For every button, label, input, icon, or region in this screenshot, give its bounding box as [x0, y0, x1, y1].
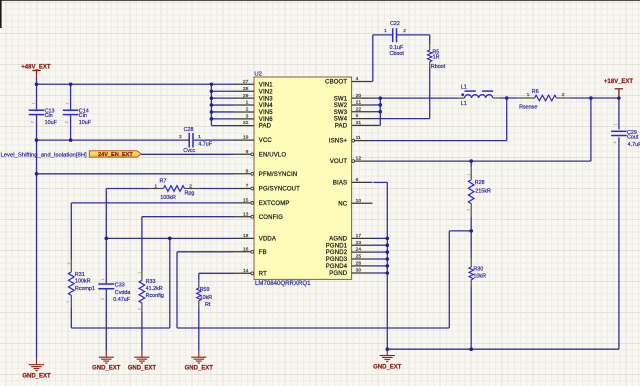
ground GND_EXT (R59): [191, 351, 206, 363]
svg-text:30: 30: [356, 268, 362, 274]
wire C14 bottom: [70, 115, 72, 140]
svg-text:PAD: PAD: [335, 124, 348, 130]
svg-text:+18V_EXT: +18V_EXT: [604, 79, 634, 85]
pin 27 VIN1 (left): [234, 83, 255, 85]
wire PGND4 stub: [373, 265, 388, 267]
wire R59 bottom to GND: [198, 308, 200, 351]
svg-text:215kR: 215kR: [475, 188, 491, 194]
svg-text:Cvdda: Cvdda: [115, 290, 131, 296]
svg-text:C28: C28: [184, 127, 194, 133]
pin 24 PGND2 (right): [352, 251, 373, 253]
resistor R28: [468, 180, 474, 204]
pin 13 CONFIG (left): [234, 216, 251, 218]
junction VIN bus top: [210, 82, 214, 86]
pin 12 VOUT (right): [355, 160, 373, 162]
pin 5 SW4 (right): [352, 118, 373, 120]
wire RT row: [199, 272, 234, 274]
lead L1 left: [458, 97, 465, 99]
pin 10 NC (right): [352, 202, 373, 204]
svg-text:FB: FB: [259, 250, 267, 256]
svg-text:1: 1: [155, 184, 158, 190]
wire +48V top rail: [37, 83, 234, 85]
wire ISNS+ riser: [506, 98, 508, 141]
svg-text:SW2: SW2: [334, 103, 348, 109]
junction SW3 bus: [379, 110, 383, 114]
svg-text:6: 6: [356, 177, 359, 183]
svg-text:23: 23: [356, 240, 362, 246]
junction bus VIN5: [210, 110, 214, 114]
svg-text:2: 2: [246, 107, 249, 113]
svg-text:10kR: 10kR: [473, 273, 486, 279]
svg-text:2: 2: [31, 121, 35, 123]
wire R33 bottom to GND: [141, 312, 143, 351]
svg-text:R30: R30: [473, 267, 483, 273]
wire R28 bottom to tap: [470, 216, 472, 231]
svg-text:Rpg: Rpg: [185, 190, 195, 196]
wire CBOOT riser: [372, 35, 374, 82]
svg-text:CBOOT: CBOOT: [325, 80, 347, 86]
wire GND rail bottom right: [387, 348, 619, 350]
svg-text:LM70840QRRXRQ1: LM70840QRRXRQ1: [255, 280, 311, 287]
wire EXTCOMP down to R31: [70, 203, 72, 260]
pin 8 PFM/SYNCIN (left): [234, 173, 251, 175]
junction C14 top: [69, 82, 73, 86]
ground GND_EXT (left rail): [29, 358, 44, 370]
junction bus VIN4: [210, 103, 214, 107]
junction +48V/rail: [35, 82, 39, 86]
wire R30 top: [470, 231, 472, 259]
lead R31 bottom: [70, 295, 72, 307]
junction AGND bus: [386, 237, 390, 241]
pin 25 PGND3 (right): [352, 258, 373, 260]
wire 24V_EN_EXT to EN/UVLO: [141, 153, 233, 155]
resistor R6: [535, 95, 557, 101]
svg-text:CONFIG: CONFIG: [259, 215, 283, 221]
wire VOUT row: [373, 160, 591, 162]
wire SW bus vertical: [379, 98, 381, 125]
svg-text:2: 2: [466, 209, 470, 211]
capacitor C14: [63, 109, 79, 111]
lead R5 bottom: [429, 62, 431, 68]
wire C33 top: [105, 238, 107, 283]
svg-text:4.7uF: 4.7uF: [198, 142, 212, 148]
svg-text:10uF: 10uF: [45, 120, 58, 126]
junction SW1 bus: [379, 96, 383, 100]
junction R30 bottom: [469, 347, 473, 351]
svg-text:EN/UVLO: EN/UVLO: [259, 152, 287, 158]
wire FB riser: [448, 231, 450, 328]
svg-text:GND_EXT: GND_EXT: [373, 364, 402, 370]
svg-text:R59: R59: [200, 287, 210, 293]
wire BIAS stub: [373, 181, 387, 183]
svg-text:GND_EXT: GND_EXT: [185, 365, 214, 371]
svg-text:Cboot: Cboot: [390, 51, 405, 57]
resistor R31: [69, 272, 75, 295]
svg-text:PGND3: PGND3: [326, 257, 348, 263]
junction bus VIN2: [210, 89, 214, 93]
svg-text:Cin: Cin: [45, 113, 53, 119]
wire C14 top: [70, 84, 72, 109]
svg-text:VIN2: VIN2: [259, 89, 273, 95]
junction VOUT riser: [589, 96, 593, 100]
junction +18V/C29: [617, 96, 621, 100]
svg-text:Rcomp1: Rcomp1: [75, 286, 95, 292]
wire VIN3 stub: [211, 97, 233, 99]
wire R6 to +18V node: [571, 97, 619, 99]
svg-text:PGND2: PGND2: [326, 250, 348, 256]
junction ISNS riser: [505, 96, 509, 100]
svg-text:PGND1: PGND1: [326, 243, 348, 249]
svg-text:1: 1: [138, 272, 142, 274]
pin 26 PGND4 (right): [352, 265, 373, 267]
svg-text:2: 2: [189, 183, 192, 189]
svg-text:Rt: Rt: [205, 302, 211, 308]
junction PGND1 bus: [386, 243, 390, 247]
svg-text:VIN3: VIN3: [259, 96, 273, 102]
wire VIN6 stub: [211, 118, 233, 120]
capacitor C28: [188, 133, 190, 148]
pin 29 VIN3 (left): [234, 97, 255, 99]
svg-text:R6: R6: [532, 89, 539, 95]
svg-text:0.47uF: 0.47uF: [113, 297, 130, 303]
wire R5 top drop: [429, 35, 431, 44]
svg-text:Rsense: Rsense: [519, 105, 537, 111]
wire PGND stub: [373, 272, 388, 274]
svg-text:2: 2: [67, 262, 71, 264]
svg-text:1: 1: [614, 123, 618, 125]
svg-text:VCC: VCC: [259, 138, 273, 144]
junction PFM row: [35, 172, 39, 176]
pin 9 EN/UVLO (left): [234, 153, 251, 155]
pin 18 VDDA (left): [234, 237, 255, 239]
svg-text:VIN1: VIN1: [259, 82, 273, 88]
wire EXTCOMP row: [71, 202, 233, 204]
wire PAD stub: [211, 125, 233, 127]
svg-text:Cin: Cin: [79, 113, 87, 119]
wire C29 bottom to GND rail: [618, 137, 620, 349]
junction PGND bus: [386, 271, 390, 275]
junction VDDA/R7/C33: [105, 237, 109, 241]
svg-text:5: 5: [356, 113, 359, 119]
wire VOUT riser: [590, 98, 592, 161]
power +18V_EXT: [615, 89, 623, 98]
svg-text:29: 29: [243, 93, 249, 99]
svg-text:BIAS: BIAS: [333, 181, 347, 187]
svg-text:100kR: 100kR: [75, 279, 91, 285]
svg-text:10: 10: [356, 198, 362, 204]
svg-text:1: 1: [66, 102, 70, 104]
ground GND_EXT (R33): [134, 351, 149, 363]
svg-text:24: 24: [356, 247, 362, 253]
wire SW4 row: [373, 118, 430, 120]
wire SW3 stub: [373, 111, 381, 113]
pin 23 PGND1 (right): [352, 244, 373, 246]
wire VIN4 stub: [211, 104, 233, 106]
lead R31 top: [70, 260, 72, 272]
pin 28 VIN2 (left): [234, 90, 255, 92]
svg-text:17: 17: [356, 233, 362, 239]
pin 14 RT (left): [234, 272, 251, 274]
capacitor C29: [611, 130, 627, 132]
pin 19 VCC (left): [234, 139, 255, 141]
resistor R30: [469, 267, 473, 280]
svg-text:10kR: 10kR: [200, 295, 213, 301]
lead R5 top: [429, 44, 431, 50]
svg-text:1: 1: [101, 278, 105, 280]
svg-text:2: 2: [138, 308, 142, 310]
svg-text:R7: R7: [160, 178, 167, 184]
junction C14 gnd: [69, 138, 73, 142]
svg-text:9: 9: [246, 149, 249, 155]
wire R7 left: [106, 188, 148, 190]
junction GND rail left: [386, 347, 390, 351]
wire R31 bottom drop: [70, 308, 72, 329]
svg-text:1: 1: [467, 173, 471, 175]
wire R28 top: [470, 161, 472, 167]
svg-text:10uF: 10uF: [79, 120, 92, 126]
pin 15 EXTCOMP (left): [234, 202, 251, 204]
capacitor C33: [98, 283, 114, 285]
wire GND row to C28: [37, 139, 189, 141]
lead R30 bottom: [470, 280, 472, 287]
svg-text:100kR: 100kR: [160, 195, 176, 201]
svg-text:13: 13: [243, 211, 249, 217]
svg-text:PFM/SYNCIN: PFM/SYNCIN: [259, 172, 298, 178]
svg-text:2: 2: [613, 141, 617, 143]
svg-text:15: 15: [243, 198, 249, 204]
svg-text:31: 31: [356, 120, 362, 126]
wire C22 to R5 corner: [397, 34, 430, 36]
junction R28 top VOUT: [469, 159, 473, 163]
svg-text:8: 8: [246, 168, 249, 174]
junction PGND2 bus: [386, 250, 390, 254]
wire VIN5 stub: [211, 111, 233, 113]
wire FB row: [177, 251, 234, 253]
pin 22 SW3 (right): [352, 111, 373, 113]
svg-text:SW3: SW3: [334, 110, 348, 116]
resistor R59: [197, 288, 201, 301]
pin 32 PAD (left): [234, 125, 255, 127]
svg-text:VIN6: VIN6: [259, 117, 273, 123]
pin 3 VIN6 (left): [234, 118, 255, 120]
lead R59 bottom: [198, 301, 200, 308]
pin 6 BIAS (right): [352, 181, 373, 183]
wire L1 to R6: [499, 97, 518, 99]
svg-text:GND_EXT: GND_EXT: [128, 365, 157, 371]
wire R30 bottom: [470, 287, 472, 350]
lead R7 left: [149, 188, 164, 190]
lead R7 right: [185, 188, 200, 190]
pin 17 AGND (right): [352, 237, 373, 239]
svg-text:1: 1: [31, 102, 35, 104]
svg-text:RT: RT: [259, 271, 267, 277]
svg-text:SW1: SW1: [334, 96, 348, 102]
svg-text:Level_Shifting_and_Isolation[8: Level_Shifting_and_Isolation[8H]: [1, 153, 87, 159]
ground GND_EXT (C33): [99, 351, 114, 363]
junction PGND4 bus: [386, 264, 390, 268]
wire VIN bus vertical: [210, 84, 212, 125]
pin 16 FB (left): [234, 251, 251, 253]
svg-text:Cvcc: Cvcc: [183, 148, 195, 154]
inductor L1: [464, 95, 492, 98]
svg-text:ISNS+: ISNS+: [329, 139, 348, 145]
svg-text:GND_EXT: GND_EXT: [92, 365, 121, 371]
wire +48V power drop: [36, 77, 38, 110]
svg-text:2: 2: [179, 134, 182, 140]
svg-text:SW4: SW4: [334, 117, 348, 123]
power +48V_EXT: [32, 71, 40, 77]
wire PGND2 stub: [373, 251, 388, 253]
pin 1 VIN4 (left): [234, 104, 255, 106]
svg-text:21: 21: [356, 100, 362, 106]
svg-text:R28: R28: [475, 180, 485, 186]
wire PGND3 stub: [373, 258, 388, 260]
svg-text:19: 19: [243, 135, 249, 141]
svg-text:1: 1: [384, 28, 387, 34]
lead R59 top: [198, 281, 200, 288]
wire PGND1 stub: [373, 244, 388, 246]
junction C13 gnd: [35, 138, 39, 142]
svg-text:NC: NC: [338, 201, 347, 207]
svg-text:26: 26: [356, 261, 362, 267]
svg-text:Rboot: Rboot: [431, 64, 446, 70]
svg-text:4: 4: [356, 76, 359, 82]
wire FB rail: [177, 327, 449, 329]
svg-text:L1: L1: [461, 84, 467, 90]
svg-text:2: 2: [100, 298, 104, 300]
svg-text:27: 27: [243, 79, 249, 85]
wire VDDA riser: [169, 238, 171, 328]
junction bus VIN3: [210, 96, 214, 100]
svg-text:1: 1: [198, 134, 201, 140]
lead R30 top: [470, 259, 472, 268]
junction PGND3 bus: [386, 257, 390, 261]
svg-text:L1: L1: [461, 101, 467, 107]
svg-text:1: 1: [527, 92, 530, 98]
wire C28 to VCC pin: [194, 139, 234, 141]
pin 2 VIN5 (left): [234, 111, 255, 113]
lead L1 right: [493, 97, 499, 99]
resistor R33: [139, 280, 145, 303]
wire CONFIG row: [142, 216, 234, 218]
svg-text:2: 2: [65, 121, 69, 123]
svg-text:U2: U2: [254, 71, 262, 77]
svg-text:C22: C22: [390, 21, 400, 27]
svg-text:16: 16: [243, 246, 249, 252]
svg-text:2: 2: [562, 92, 565, 98]
svg-text:EXTCOMP: EXTCOMP: [259, 201, 290, 207]
pin 7 PG/SYNCOUT (left): [234, 188, 251, 190]
wire rail R31 to VDDA riser: [71, 327, 170, 329]
wire AGND stub: [373, 237, 388, 239]
svg-text:20: 20: [356, 93, 362, 99]
wire C13 bottom to GND rail: [36, 115, 38, 358]
svg-text:41.2kR: 41.2kR: [146, 286, 163, 292]
wire CBOOT top to C22: [373, 34, 393, 36]
lead R33 bottom: [141, 303, 143, 312]
wire PAD31 stub: [373, 124, 381, 126]
wire FB drop: [176, 252, 178, 328]
svg-text:VIN4: VIN4: [259, 103, 273, 109]
wire CONFIG down to R33: [141, 217, 143, 271]
svg-text:1: 1: [65, 301, 69, 303]
svg-text:7: 7: [246, 183, 249, 189]
svg-text:24V_EN_EXT: 24V_EN_EXT: [98, 152, 133, 158]
lead R28 top: [470, 167, 472, 180]
svg-text:VOUT: VOUT: [330, 159, 347, 165]
wire C29 top: [618, 98, 620, 129]
svg-text:2: 2: [403, 28, 406, 34]
svg-text:R31: R31: [75, 272, 85, 278]
svg-text:14: 14: [243, 268, 249, 274]
wire R5 bottom to SW4 row: [429, 68, 431, 119]
svg-text:Cout: Cout: [627, 134, 639, 140]
resistor R7: [163, 186, 184, 192]
wire VDDA row: [106, 237, 233, 239]
capacitor C13: [29, 109, 45, 111]
wire SW2 stub: [373, 104, 381, 106]
lead R33 top: [141, 271, 143, 280]
lead R6 right: [556, 97, 570, 99]
pin 30 PGND (right): [352, 272, 373, 274]
wire RT drop to R59: [198, 273, 200, 281]
svg-text:PGND4: PGND4: [326, 264, 348, 270]
svg-text:32: 32: [243, 120, 249, 126]
wire C33 bottom to GND: [105, 290, 107, 351]
svg-text:25: 25: [356, 254, 362, 260]
svg-text:11: 11: [356, 135, 361, 141]
wire R7 to PG/SYNCOUT: [199, 188, 233, 190]
svg-text:1R: 1R: [433, 55, 440, 61]
svg-text:C33: C33: [115, 282, 125, 288]
pin 11 ISNS+ (right): [355, 140, 373, 142]
capacitor C22: [392, 28, 394, 42]
pin 20 SW1 (right): [352, 97, 373, 99]
pin 21 SW2 (right): [352, 104, 373, 106]
svg-text:1: 1: [246, 100, 249, 106]
svg-text:22: 22: [356, 106, 362, 112]
ground GND_EXT (PGND rail): [380, 349, 395, 361]
wire VIN2 stub: [211, 90, 233, 92]
lead R6 left: [518, 97, 535, 99]
svg-text:PGND: PGND: [329, 271, 347, 277]
junction VDDA riser: [168, 237, 172, 241]
svg-text:AGND: AGND: [329, 236, 347, 242]
svg-text:28: 28: [243, 86, 249, 92]
resistor R5: [428, 50, 432, 62]
wire R7 riser to VDDA: [105, 189, 107, 239]
svg-text:+48V_EXT: +48V_EXT: [21, 65, 51, 71]
lead R28 bottom: [470, 204, 472, 217]
wire SW1 to L1: [373, 97, 459, 99]
svg-text:VDDA: VDDA: [259, 236, 276, 242]
svg-text:VIN5: VIN5: [259, 110, 273, 116]
svg-text:PG/SYNCOUT: PG/SYNCOUT: [259, 187, 300, 193]
junction bus VIN6: [210, 117, 214, 121]
IC U2 LM70840QRRXRQ1 body: [254, 77, 352, 279]
svg-text:Rconfig: Rconfig: [146, 293, 164, 299]
pin 31 PAD (right): [352, 124, 373, 126]
wire ISNS+ row: [373, 140, 507, 142]
svg-text:R33: R33: [146, 279, 156, 285]
junction FB divider tap: [469, 229, 473, 233]
svg-text:3: 3: [246, 113, 249, 119]
junction SW2 bus: [379, 103, 383, 107]
wire BIAS/PGND bus: [386, 182, 388, 349]
svg-text:4.7uF: 4.7uF: [628, 142, 640, 148]
wire FB to divider tap: [449, 230, 471, 232]
svg-text:PAD: PAD: [259, 124, 272, 130]
